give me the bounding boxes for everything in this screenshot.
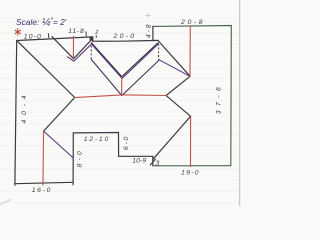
svg-text:10-0: 10-0 bbox=[24, 34, 41, 41]
svg-text:Scale: ¼″= 2′: Scale: ¼″= 2′ bbox=[16, 16, 67, 28]
svg-text:11-8: 11-8 bbox=[68, 28, 84, 35]
svg-text:2: 2 bbox=[94, 30, 98, 36]
svg-text:3: 3 bbox=[155, 158, 159, 167]
svg-text:4-8: 4-8 bbox=[146, 24, 153, 38]
svg-text:12-10: 12-10 bbox=[84, 136, 109, 143]
svg-text:20-0: 20-0 bbox=[113, 33, 135, 40]
svg-text:10-9: 10-9 bbox=[132, 157, 146, 164]
svg-text:19-0: 19-0 bbox=[181, 169, 199, 176]
svg-text:8-0: 8-0 bbox=[76, 151, 83, 167]
svg-text:6-0: 6-0 bbox=[123, 136, 130, 150]
